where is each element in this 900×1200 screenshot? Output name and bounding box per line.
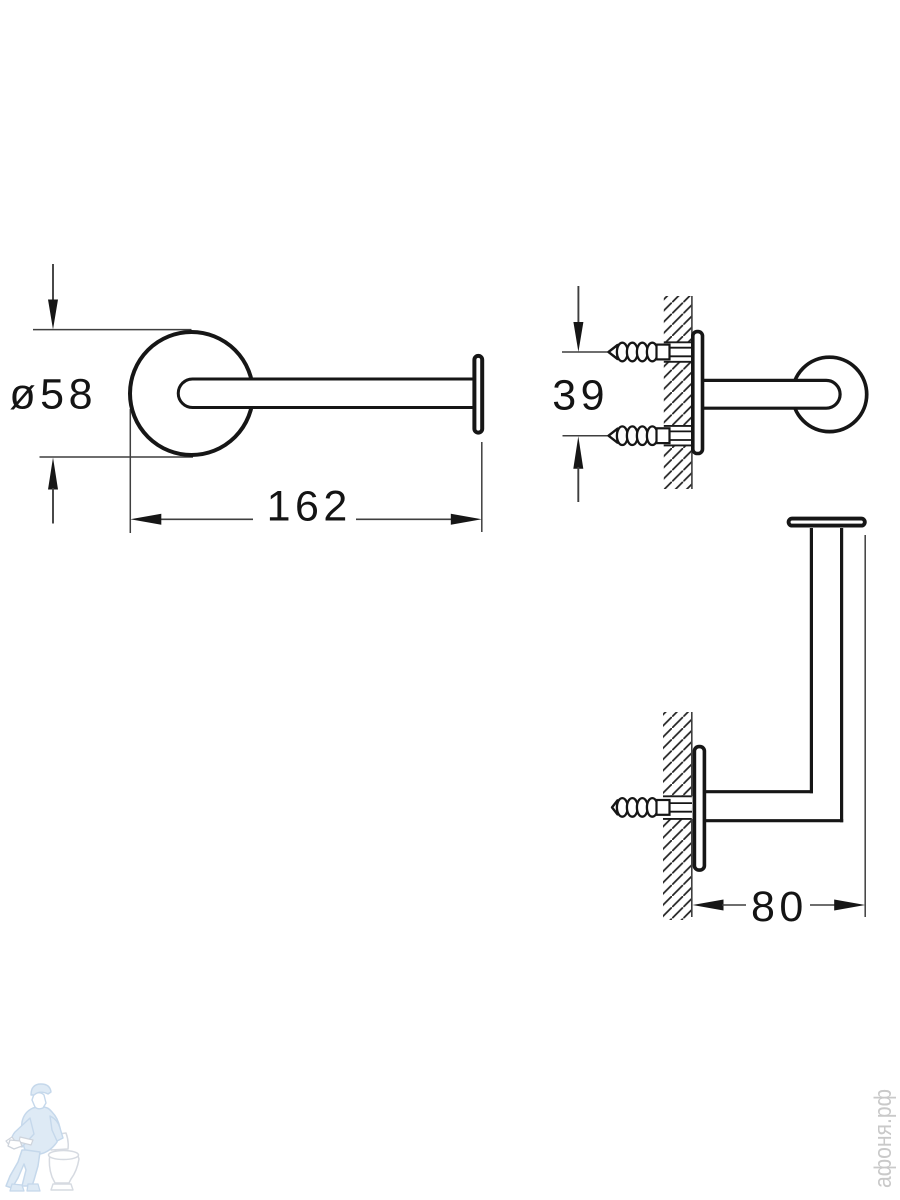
svg-text:80: 80 [751,883,808,931]
svg-text:39: 39 [552,372,609,420]
svg-text:афоня.рф: афоня.рф [870,1089,897,1188]
svg-text:ø58: ø58 [9,371,97,419]
svg-text:162: 162 [267,483,352,531]
